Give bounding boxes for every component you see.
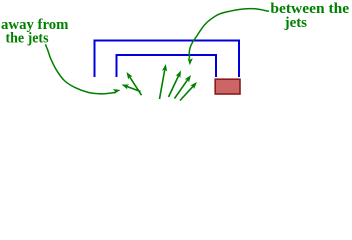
fan arrow B (left shallow): [122, 85, 141, 92]
outer tube (blue inverted U): [95, 41, 240, 78]
svg-text:jets: jets: [284, 15, 308, 31]
pink block: [215, 79, 240, 94]
inner tube (blue inverted U): [117, 55, 217, 77]
fan arrow A (up-left steep): [127, 72, 142, 95]
fan arrow E (up-right middle): [175, 75, 192, 99]
svg-text:the jets: the jets: [6, 30, 49, 46]
svg-text:between the: between the: [270, 1, 349, 17]
left curved arrow (from "the jets" to lower centre): [45, 44, 120, 94]
fan arrow F (up-right shallow): [180, 82, 197, 101]
right curved arrow (from "between the jets" down into gap): [188, 9, 269, 66]
fan arrow D (up-right steep): [169, 71, 182, 98]
fan arrow C (near vertical): [160, 64, 168, 99]
